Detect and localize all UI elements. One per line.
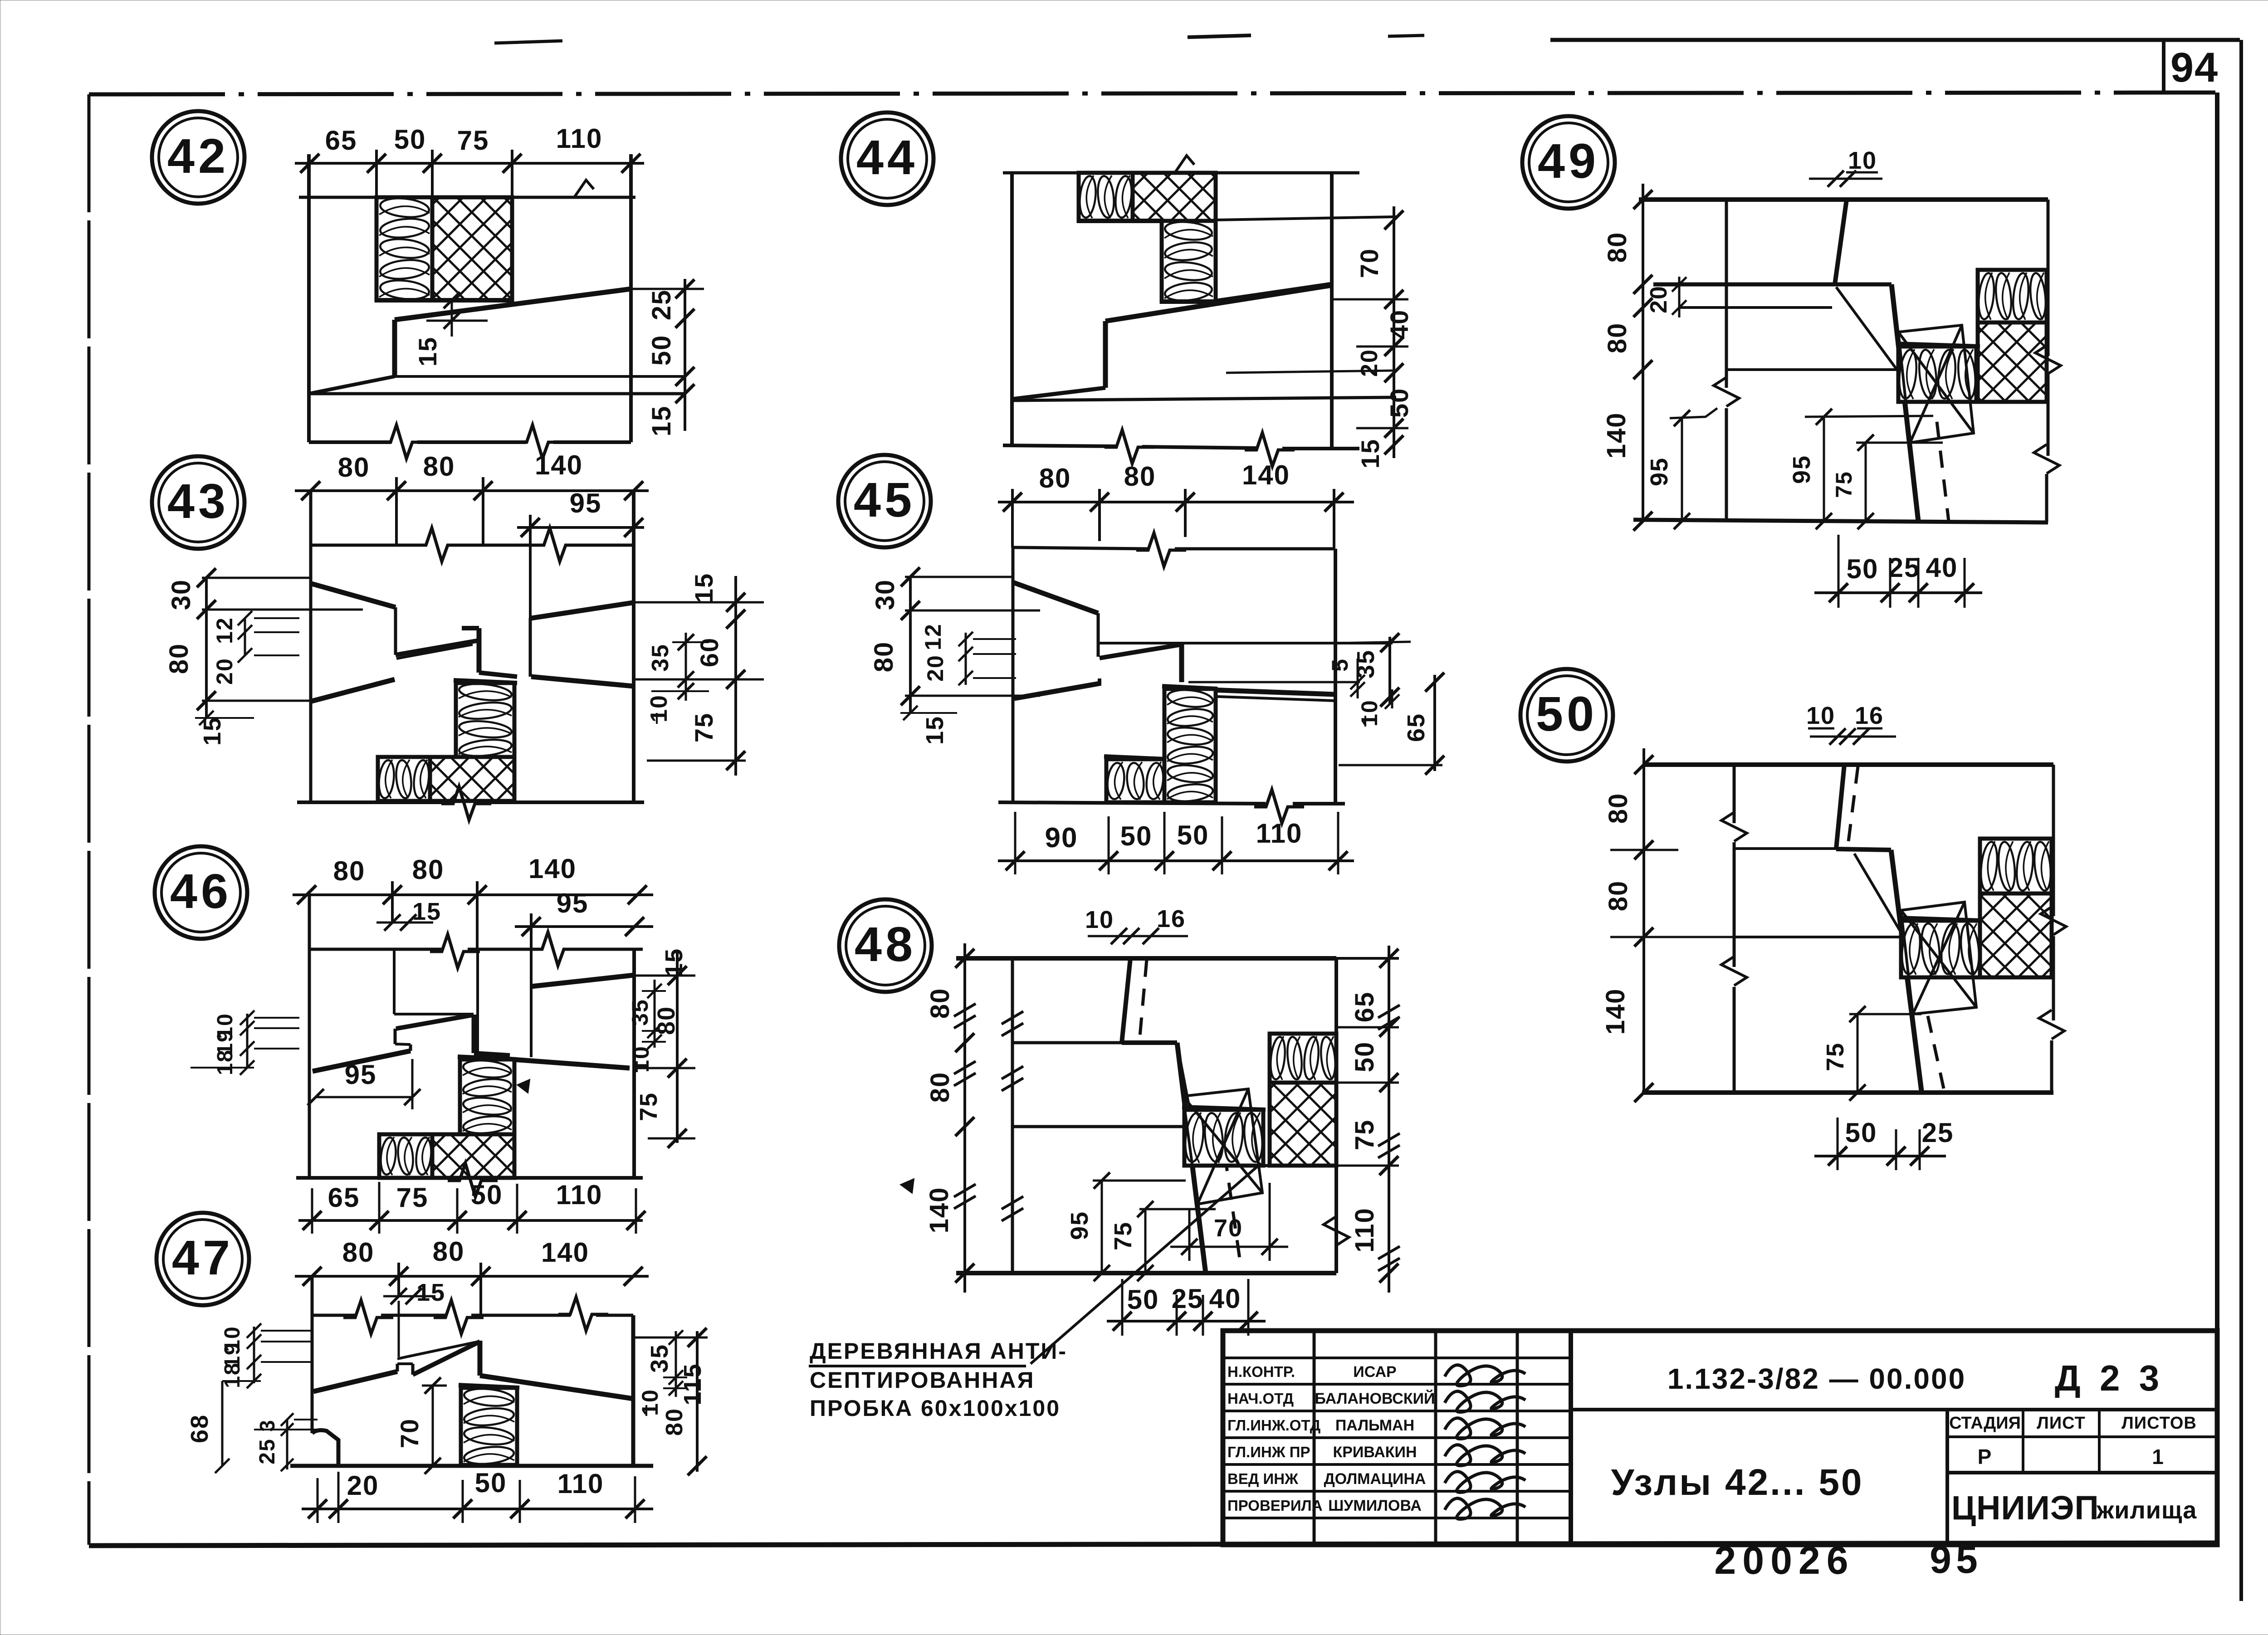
- svg-text:43: 43: [167, 473, 229, 528]
- title block: [1223, 1331, 2217, 1545]
- bottom sheet codes: [1714, 1538, 1982, 1582]
- detail circle 49: [1522, 116, 1615, 209]
- svg-text:70: 70: [395, 1418, 424, 1448]
- svg-text:68: 68: [186, 1414, 213, 1443]
- top line 46: [309, 948, 442, 951]
- right dims 15/35/80/10/75 46: [632, 975, 695, 977]
- svg-text:80: 80: [164, 643, 194, 674]
- detail 44 drawing: [1003, 156, 1413, 469]
- svg-text:20: 20: [347, 1470, 379, 1501]
- tilted wall 48: [1122, 958, 1130, 1043]
- svg-text:ДЕРЕВЯННАЯ АНТИ-: ДЕРЕВЯННАЯ АНТИ-: [810, 1338, 1067, 1364]
- svg-text:50: 50: [1350, 1041, 1379, 1073]
- bottom line 45: [998, 802, 1266, 804]
- svg-text:35: 35: [627, 999, 653, 1026]
- svg-text:50: 50: [1120, 821, 1153, 851]
- detail circle 48: [839, 899, 932, 992]
- right dim col 65/50/75/110 48: [1388, 946, 1390, 1293]
- detail 45 drawing: [869, 460, 1444, 874]
- svg-text:70: 70: [1355, 248, 1383, 278]
- top line 49: [1639, 197, 2048, 202]
- leader to note 48: [1031, 1163, 1261, 1364]
- svg-text:80: 80: [925, 988, 955, 1019]
- svg-text:80: 80: [342, 1237, 375, 1268]
- svg-text:40: 40: [1385, 309, 1413, 339]
- svg-text:30: 30: [166, 579, 196, 610]
- svg-text:46: 46: [170, 864, 232, 918]
- insulation 49: [1978, 270, 2047, 322]
- bottom break 44: [1003, 445, 1117, 446]
- break mark top 44: [1175, 156, 1194, 173]
- svg-text:10: 10: [646, 694, 672, 722]
- insulation 45: [1164, 689, 1216, 802]
- svg-text:5: 5: [1327, 658, 1353, 672]
- svg-text:80: 80: [423, 451, 455, 482]
- svg-text:10: 10: [1085, 906, 1114, 933]
- detail 46 drawing: [191, 854, 695, 1234]
- svg-text:16: 16: [1855, 702, 1884, 729]
- svg-text:10: 10: [637, 1389, 663, 1416]
- detail circle 43: [152, 456, 244, 549]
- top dims 10/16 48: [1088, 935, 1188, 937]
- svg-text:12: 12: [212, 617, 237, 644]
- outline 50: [1733, 765, 1736, 823]
- svg-text:ШУМИЛОВА: ШУМИЛОВА: [1328, 1497, 1422, 1514]
- svg-text:50: 50: [1385, 388, 1413, 418]
- svg-text:10: 10: [1806, 702, 1835, 729]
- svg-text:110: 110: [1350, 1207, 1379, 1253]
- insulation blocks 43: [456, 683, 514, 757]
- bottom line 50: [1642, 1090, 2053, 1095]
- dim line 80/80/140 43: [295, 489, 649, 492]
- break mark top 42: [574, 180, 594, 197]
- svg-text:Узлы 42... 50: Узлы 42... 50: [1611, 1462, 1863, 1503]
- inner dims 95/75 49: [1805, 416, 1933, 417]
- svg-text:ДОЛМАЦИНА: ДОЛМАЦИНА: [1324, 1470, 1426, 1488]
- walls 46: [308, 895, 311, 1178]
- outline 44: [1003, 171, 1359, 175]
- left dims 10/19/18/68/3/25 47: [253, 1327, 255, 1383]
- svg-text:50: 50: [1177, 820, 1209, 850]
- slab 44: [1214, 284, 1332, 302]
- left panel 46: [313, 1051, 411, 1071]
- top line 50: [1644, 762, 2053, 767]
- svg-text:140: 140: [1602, 412, 1631, 459]
- svg-text:75: 75: [396, 1182, 429, 1213]
- svg-text:95: 95: [1066, 1211, 1093, 1240]
- svg-text:65: 65: [325, 125, 357, 156]
- svg-text:ЛИСТОВ: ЛИСТОВ: [2121, 1414, 2197, 1433]
- svg-text:48: 48: [855, 917, 916, 971]
- right dims 15/35/60/10/75 43: [630, 601, 764, 604]
- right panel 46: [531, 975, 634, 986]
- bottom dim 50/25 50: [1814, 1155, 1946, 1157]
- bottom dim 20/50/110 47: [302, 1508, 653, 1510]
- svg-text:25: 25: [1172, 1284, 1204, 1314]
- svg-text:ГЛ.ИНЖ ПР: ГЛ.ИНЖ ПР: [1227, 1444, 1310, 1460]
- insulation 47: [461, 1388, 517, 1465]
- svg-text:110: 110: [556, 1180, 603, 1210]
- bottom break line 42: [309, 440, 391, 444]
- svg-text:80: 80: [925, 1072, 955, 1103]
- svg-text:50: 50: [471, 1180, 503, 1210]
- svg-text:95: 95: [557, 888, 589, 918]
- svg-text:75: 75: [1110, 1221, 1137, 1250]
- right dims 35/115/10/80 47: [635, 1337, 708, 1339]
- svg-text:140: 140: [924, 1187, 954, 1234]
- svg-text:Р: Р: [1978, 1445, 1993, 1469]
- svg-text:СЕПТИРОВАННАЯ: СЕПТИРОВАННАЯ: [810, 1367, 1035, 1393]
- svg-text:ПРОВЕРИЛА: ПРОВЕРИЛА: [1227, 1497, 1323, 1514]
- svg-text:25: 25: [647, 289, 676, 321]
- svg-text:35: 35: [647, 644, 674, 672]
- svg-text:140: 140: [528, 854, 577, 884]
- central tongue 47: [313, 1371, 397, 1391]
- svg-text:18: 18: [220, 1362, 244, 1388]
- left dims 10/19/18 46: [246, 1014, 249, 1068]
- arrow mark 46: [517, 1079, 530, 1093]
- bottom dim 65/75/50/110 46: [298, 1219, 643, 1222]
- svg-text:75: 75: [1831, 471, 1857, 498]
- left panel 45: [1013, 582, 1098, 613]
- svg-text:80: 80: [338, 452, 370, 483]
- walls 47: [311, 1276, 314, 1433]
- left dim col 80/20/80/140/95 49: [1642, 184, 1644, 521]
- svg-text:50: 50: [1127, 1284, 1159, 1315]
- svg-text:35: 35: [646, 1344, 673, 1373]
- insulation 48: [1270, 1034, 1336, 1083]
- svg-text:10: 10: [1848, 147, 1877, 174]
- svg-text:1.132-3/82 — 00.000: 1.132-3/82 — 00.000: [1667, 1362, 1966, 1395]
- detail circle 47: [156, 1213, 249, 1305]
- svg-text:15: 15: [412, 898, 441, 925]
- svg-text:ЛИСТ: ЛИСТ: [2037, 1414, 2086, 1433]
- note: wooden antiseptic plug: [809, 1338, 1067, 1421]
- arrow mark 48: [900, 1179, 914, 1193]
- right dims 5/35/10/65 45: [1335, 642, 1411, 643]
- svg-text:15: 15: [660, 948, 688, 977]
- svg-text:40: 40: [1926, 552, 1958, 583]
- svg-text:15: 15: [416, 1279, 445, 1306]
- dim 95 sub 46: [515, 925, 653, 928]
- svg-text:СТАДИЯ: СТАДИЯ: [1949, 1414, 2021, 1433]
- svg-text:140: 140: [1601, 988, 1630, 1035]
- svg-text:1: 1: [2152, 1445, 2165, 1469]
- bottom line 48: [956, 1271, 1336, 1275]
- svg-text:70: 70: [1214, 1215, 1243, 1242]
- svg-text:15: 15: [647, 405, 676, 437]
- svg-text:110: 110: [557, 1469, 604, 1499]
- detail 50 drawing: [1601, 702, 2066, 1170]
- bottom line 43: [297, 800, 454, 804]
- dim line 80/80/140 46: [293, 893, 653, 896]
- svg-text:40: 40: [1209, 1284, 1242, 1314]
- walls 45: [1012, 547, 1015, 802]
- top slab line 43: [311, 544, 426, 547]
- bottom dim 50/25/40 49: [1814, 591, 1982, 594]
- dim line 80/80/140 45: [998, 501, 1354, 503]
- svg-text:12: 12: [920, 623, 946, 650]
- svg-text:115: 115: [679, 1363, 706, 1405]
- svg-text:65: 65: [1403, 713, 1430, 742]
- svg-text:БАЛАНОВСКИЙ: БАЛАНОВСКИЙ: [1315, 1390, 1435, 1407]
- dim 75 50: [1849, 1013, 1921, 1015]
- svg-text:жилища: жилища: [2096, 1497, 2197, 1524]
- svg-text:80: 80: [333, 856, 366, 886]
- svg-text:80: 80: [412, 854, 445, 885]
- right panel 45: [1182, 642, 1393, 644]
- dim 95 sub 43: [517, 526, 644, 529]
- bottom line 47: [290, 1464, 653, 1468]
- svg-text:25: 25: [1922, 1118, 1954, 1148]
- right dims 70/40/20/50/15 44: [1393, 206, 1395, 458]
- walls 43: [309, 491, 313, 802]
- svg-text:75: 75: [457, 125, 489, 156]
- detail circle 44: [841, 112, 934, 205]
- svg-text:15: 15: [413, 337, 442, 366]
- insulation top 44: [1079, 173, 1133, 221]
- top line 47: [312, 1314, 356, 1317]
- svg-text:140: 140: [1242, 460, 1290, 490]
- left object line 48: [1011, 958, 1014, 1273]
- svg-text:95: 95: [1788, 455, 1815, 484]
- svg-text:47: 47: [172, 1230, 234, 1285]
- svg-text:95: 95: [570, 488, 602, 518]
- right edge 50: [2052, 765, 2055, 916]
- svg-text:42: 42: [167, 128, 229, 183]
- svg-text:75: 75: [1822, 1042, 1849, 1071]
- bottom dim 50/25/40 48: [1107, 1320, 1266, 1323]
- wood plug X 49: [1898, 325, 1974, 443]
- right panel 43: [531, 603, 632, 618]
- svg-text:15: 15: [689, 573, 718, 603]
- svg-text:ЦНИИЭП: ЦНИИЭП: [1951, 1489, 2099, 1527]
- inner 95 49: [1681, 418, 1683, 521]
- dim line 80/80/140 47: [295, 1275, 649, 1278]
- inner dims 95/75/70 48: [1093, 1180, 1186, 1182]
- svg-text:75: 75: [689, 713, 718, 742]
- right edge 49: [2047, 200, 2050, 356]
- dim 95 inner 46: [316, 1096, 412, 1098]
- dim 70 47: [432, 1386, 434, 1466]
- svg-text:ВЕД ИНЖ: ВЕД ИНЖ: [1227, 1470, 1298, 1487]
- svg-text:10: 10: [1357, 699, 1382, 727]
- svg-text:30: 30: [870, 579, 900, 610]
- svg-text:15: 15: [1356, 439, 1384, 469]
- dim col right 25/50/15 42: [684, 279, 686, 431]
- detail 48 drawing: [900, 905, 1400, 1364]
- svg-text:50: 50: [1847, 554, 1879, 584]
- top line 45: [1013, 547, 1148, 549]
- svg-text:90: 90: [1045, 822, 1078, 854]
- svg-text:44: 44: [856, 130, 918, 185]
- svg-text:15: 15: [199, 717, 226, 746]
- svg-text:75: 75: [635, 1092, 662, 1121]
- svg-text:ГЛ.ИНЖ.ОТД: ГЛ.ИНЖ.ОТД: [1227, 1417, 1320, 1434]
- dim 15 sub 47: [383, 1295, 435, 1298]
- dim 15 inner 42: [451, 300, 453, 337]
- dim line 65/50/75/110: [295, 162, 644, 165]
- svg-text:80: 80: [1603, 880, 1633, 912]
- wood plug 48: [1183, 1089, 1262, 1204]
- insulation wool block 42: [376, 197, 432, 300]
- dim 15 sub 46: [376, 922, 433, 924]
- svg-text:50: 50: [1845, 1118, 1877, 1148]
- right wall 48: [1334, 958, 1338, 1034]
- svg-text:НАЧ.ОТД: НАЧ.ОТД: [1227, 1390, 1294, 1407]
- svg-text:95: 95: [1646, 457, 1673, 486]
- svg-text:35: 35: [1352, 649, 1379, 678]
- left dim col 80/80/140 50: [1642, 748, 1645, 1093]
- left panel 43: [312, 584, 396, 607]
- svg-text:25: 25: [255, 1438, 279, 1464]
- svg-text:15: 15: [921, 716, 948, 745]
- outline 49: [1725, 200, 1728, 388]
- svg-text:18: 18: [213, 1049, 237, 1075]
- svg-text:80: 80: [1124, 461, 1156, 492]
- svg-text:20: 20: [923, 654, 948, 682]
- left dims 30/12/20/80/15 43: [205, 578, 208, 718]
- svg-text:50: 50: [394, 124, 426, 155]
- svg-text:140: 140: [541, 1237, 589, 1268]
- svg-text:ПРОБКА 60х100х100: ПРОБКА 60х100х100: [810, 1396, 1061, 1421]
- svg-text:80: 80: [1603, 793, 1633, 824]
- left dims 30/80/12/20/15 45: [909, 577, 912, 713]
- detail 49 drawing: [1602, 147, 2061, 608]
- svg-text:94: 94: [2170, 44, 2219, 91]
- svg-text:49: 49: [1538, 133, 1599, 188]
- svg-text:110: 110: [556, 123, 603, 154]
- insulation 46: [460, 1059, 514, 1134]
- svg-text:50: 50: [475, 1468, 507, 1498]
- svg-text:20: 20: [1356, 349, 1383, 377]
- wall outline 42: [307, 154, 311, 442]
- detail 47 drawing: [186, 1236, 708, 1523]
- bottom dim 90/50/50/110 45: [998, 859, 1354, 862]
- svg-text:50: 50: [1536, 686, 1598, 741]
- bottom line 49: [1633, 520, 2048, 522]
- svg-text:80: 80: [1603, 232, 1632, 263]
- svg-text:80: 80: [1039, 463, 1071, 493]
- svg-text:Н.КОНТР.: Н.КОНТР.: [1227, 1363, 1295, 1380]
- svg-text:140: 140: [535, 450, 583, 480]
- detail circle 45: [838, 455, 931, 547]
- left dim col 80/80/140 48: [963, 943, 966, 1293]
- insulation crosshatch block 42: [432, 197, 512, 300]
- detail 43 drawing: [164, 450, 764, 820]
- svg-text:Д 2 3: Д 2 3: [2055, 1358, 2164, 1398]
- wood plug X 50: [1901, 902, 1976, 1014]
- svg-text:80: 80: [661, 1408, 688, 1436]
- svg-text:ПАЛЬМАН: ПАЛЬМАН: [1335, 1417, 1414, 1434]
- svg-text:80: 80: [433, 1236, 465, 1267]
- top line 48: [956, 956, 1336, 961]
- svg-text:20: 20: [212, 658, 237, 685]
- detail circle 46: [155, 846, 247, 939]
- svg-text:95: 95: [345, 1059, 377, 1090]
- sheet number 94 box: [2164, 40, 2219, 93]
- svg-text:20: 20: [1646, 285, 1672, 313]
- svg-text:65: 65: [328, 1182, 360, 1213]
- svg-text:65: 65: [1350, 991, 1379, 1023]
- svg-text:50: 50: [647, 335, 676, 366]
- floor slab 42: [395, 289, 631, 320]
- svg-text:45: 45: [854, 472, 915, 527]
- detail circle 42: [152, 111, 244, 204]
- detail 42 drawing: [295, 123, 704, 459]
- insulation 50: [1980, 839, 2052, 893]
- svg-text:80: 80: [1603, 322, 1632, 354]
- svg-text:75: 75: [1350, 1119, 1379, 1151]
- svg-text:80: 80: [869, 641, 899, 673]
- svg-text:ИСАР: ИСАР: [1353, 1363, 1396, 1381]
- svg-text:110: 110: [1256, 818, 1303, 849]
- floor lines 48: [1012, 1041, 1122, 1044]
- svg-text:25: 25: [1888, 552, 1921, 583]
- svg-text:16: 16: [1157, 905, 1186, 932]
- bottom line 46: [296, 1176, 459, 1180]
- detail circle 50: [1520, 669, 1613, 761]
- svg-text:КРИВАКИН: КРИВАКИН: [1333, 1444, 1417, 1461]
